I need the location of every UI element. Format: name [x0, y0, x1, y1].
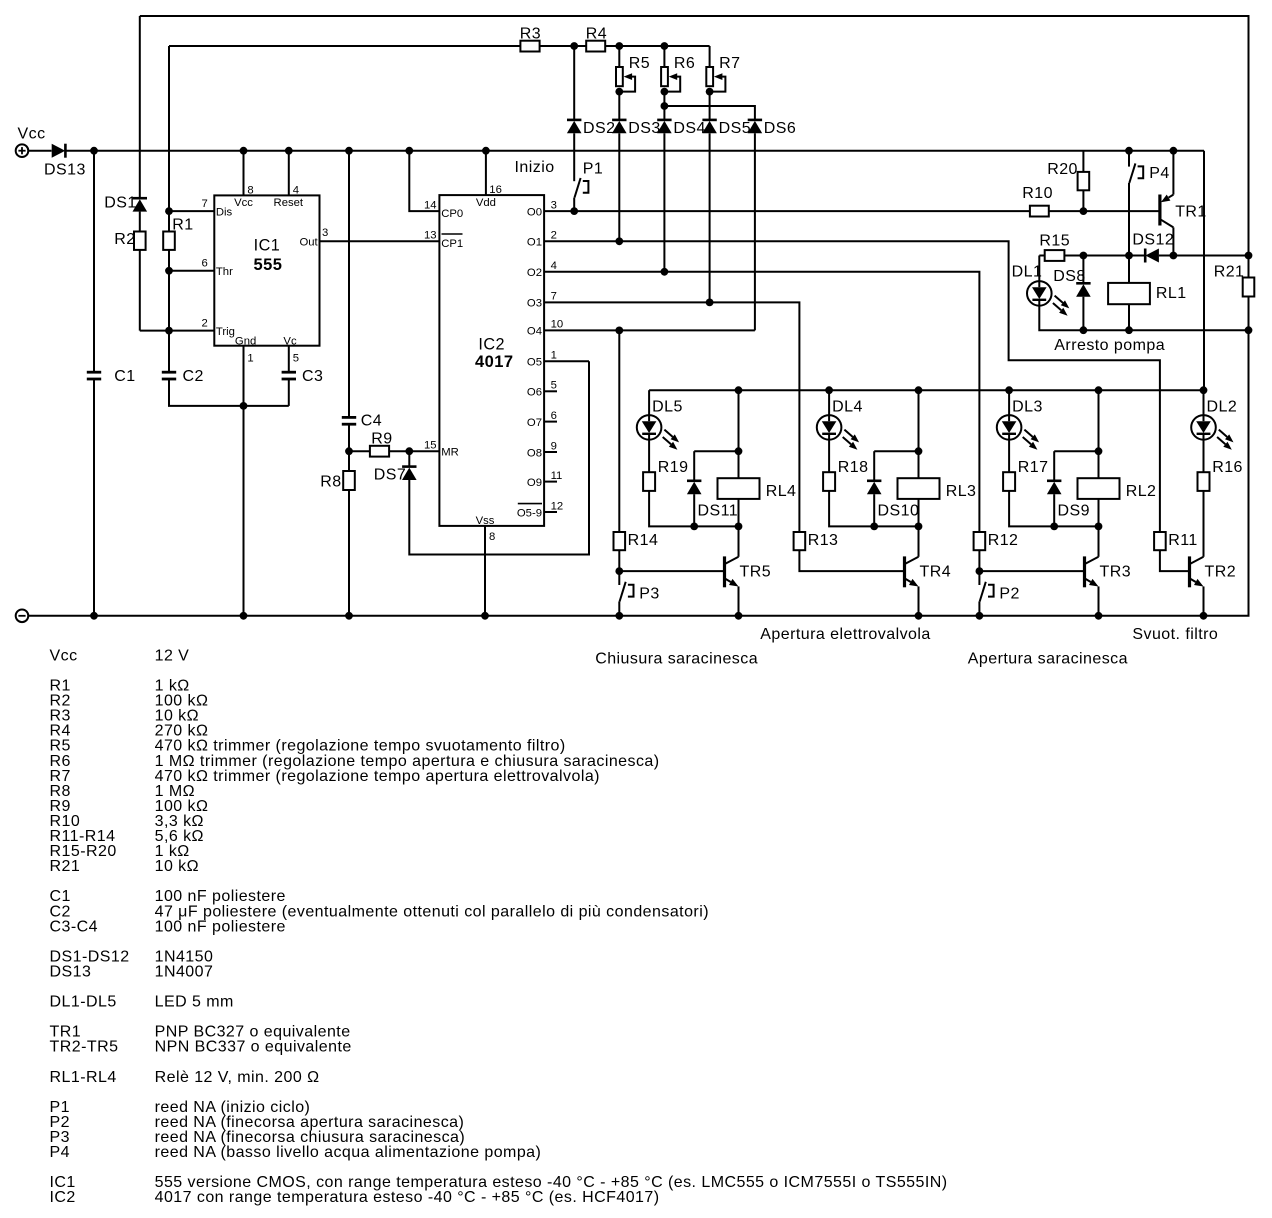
DS11 label [698, 503, 739, 520]
svg-text:R12: R12 [988, 532, 1019, 549]
svg-text:P4: P4 [1149, 165, 1169, 182]
reed switch P2 [980, 582, 994, 602]
junction DS4 O2 [661, 268, 669, 276]
R17 label [1018, 459, 1049, 476]
svg-text:reed NA (basso livello acqua a: reed NA (basso livello acqua alimentazio… [155, 1144, 542, 1161]
svg-text:3: 3 [551, 199, 557, 211]
junction TR1 collector DS12 [1170, 252, 1178, 260]
wire DS12 to TR1 [1159, 255, 1249, 257]
junction P3 base node [615, 567, 623, 575]
DS12 label [1132, 232, 1174, 249]
svg-text:C1: C1 [114, 368, 135, 385]
svg-text:TR2-TR5: TR2-TR5 [50, 1039, 119, 1056]
svg-text:R9: R9 [371, 431, 392, 448]
svg-text:R6: R6 [674, 55, 695, 72]
wire Thr row [169, 270, 214, 272]
svg-text:R14: R14 [628, 532, 659, 549]
wire R21 bottom [1248, 297, 1250, 616]
IC2 pin MR name [441, 447, 459, 459]
wire C4 top [348, 151, 350, 418]
diode DS10 [867, 481, 882, 494]
svg-text:9: 9 [551, 440, 557, 452]
Inizio label [515, 159, 555, 176]
DS5 label [719, 120, 751, 137]
junction Thr node [165, 267, 173, 275]
Vcc label [18, 126, 46, 143]
IC2 pin 6 number [551, 410, 557, 422]
wire DS11 anode [693, 451, 695, 481]
wire R14 to base node [618, 550, 620, 571]
IC1 pin 6 number [202, 258, 208, 270]
svg-text:O2: O2 [527, 267, 542, 279]
wire R17 bottom [1009, 491, 1098, 527]
wire R7 top [709, 46, 711, 67]
svg-text:1N4007: 1N4007 [155, 963, 214, 980]
junction IC2 Vdd branch [482, 147, 490, 155]
svg-text:1: 1 [247, 353, 253, 365]
wire relay RL2 top [1098, 390, 1100, 478]
junction R8 gnd [345, 612, 353, 620]
R5 label [629, 55, 650, 72]
wire DL3 to R17 [1008, 440, 1010, 473]
R6 label [674, 55, 695, 72]
IC2 pin 1 number [551, 350, 557, 362]
svg-text:RL3: RL3 [946, 483, 977, 500]
wire R13 to base row [799, 550, 904, 571]
svg-text:10 kΩ: 10 kΩ [155, 858, 199, 875]
C2 label [183, 368, 204, 385]
svg-text:R19: R19 [658, 459, 689, 476]
wire DS5 to O3 row [709, 133, 711, 302]
svg-text:13: 13 [424, 230, 437, 242]
junction P2 base node [976, 567, 984, 575]
R3 label [520, 26, 541, 43]
junction TR5 collector node [735, 523, 743, 531]
svg-text:8: 8 [247, 185, 253, 197]
R12 label [988, 532, 1019, 549]
svg-text:DL1: DL1 [1012, 264, 1043, 281]
wire R8 top [348, 451, 350, 471]
led DL2 [1191, 415, 1233, 450]
IC2 pin Vss name [476, 515, 495, 527]
wire C3 bottom [288, 379, 290, 406]
IC2 pin O6 name [527, 387, 542, 399]
trimmer R7 [706, 67, 725, 92]
diode DS6 [748, 120, 763, 133]
C3 label [302, 368, 323, 385]
svg-text:DS10: DS10 [878, 503, 920, 520]
wire R4 to R7 [605, 45, 709, 47]
wire DS1 to R2 [139, 212, 141, 232]
wire DS3 to O1 row [618, 133, 620, 241]
IC1 label [254, 236, 281, 254]
R14 label [628, 532, 659, 549]
wire DS9 anode [1053, 451, 1055, 481]
junction Dis node [165, 207, 173, 215]
capacitor C2 [162, 372, 176, 379]
svg-text:15: 15 [424, 439, 437, 451]
R10 label [1022, 185, 1053, 202]
svg-text:R7: R7 [719, 55, 740, 72]
svg-text:5: 5 [293, 353, 299, 365]
svg-text:555: 555 [254, 256, 283, 274]
wire DS10 to bottom [873, 494, 875, 526]
trimmer R5 [616, 67, 635, 92]
resistor R9 [370, 446, 389, 457]
wire R8 bottom [348, 490, 350, 616]
diode DS12 [1145, 249, 1159, 263]
svg-text:P4: P4 [50, 1144, 70, 1161]
P1 label [583, 161, 603, 178]
transistor TR4 NPN [905, 556, 919, 587]
wire P4 to RL1 [1128, 183, 1130, 283]
svg-text:RL4: RL4 [766, 483, 797, 500]
R7 label [719, 55, 740, 72]
capacitor C3 [282, 372, 296, 379]
TR1 label [1175, 204, 1207, 221]
wire Vcc rail [66, 150, 1204, 152]
svg-text:P2: P2 [999, 586, 1019, 603]
DS8 label [1053, 268, 1085, 285]
svg-text:DS3: DS3 [628, 120, 660, 137]
svg-text:DS7: DS7 [374, 467, 406, 484]
wire O8 stub [544, 451, 557, 453]
IC2 pin O0 name [527, 206, 542, 218]
svg-text:R21: R21 [50, 858, 81, 875]
svg-text:NPN BC337 o equivalente: NPN BC337 o equivalente [155, 1039, 352, 1056]
wire R1 top to R3 [169, 45, 520, 47]
IC2 pin 9 number [551, 440, 557, 452]
svg-text:2: 2 [202, 318, 208, 330]
diode DS5 [702, 120, 717, 133]
svg-text:R16: R16 [1212, 459, 1243, 476]
C1 label [114, 368, 135, 385]
junction CP0 branch [405, 147, 413, 155]
junction R5 top [615, 42, 623, 50]
svg-text:R8: R8 [320, 474, 341, 491]
R19 label [658, 459, 689, 476]
IC2 pin 12 number [551, 500, 564, 512]
wire RL1 bottom [1128, 304, 1130, 330]
svg-text:DS12: DS12 [1132, 232, 1174, 249]
DS13 label [44, 162, 86, 179]
svg-text:R17: R17 [1018, 459, 1049, 476]
IC1 pin 1 number [247, 353, 253, 365]
svg-text:R11: R11 [1168, 532, 1198, 549]
wire P2 bottom [978, 601, 980, 615]
IC2 pin CP0 name [441, 208, 463, 220]
junction MR DS7 [405, 447, 413, 455]
RL2 label [1126, 483, 1157, 500]
R1 label [172, 217, 193, 234]
junction RL1 bottom [1125, 326, 1133, 334]
capacitor C4 [342, 417, 356, 424]
reed switch P4 [1129, 163, 1143, 183]
svg-text:TR2: TR2 [1205, 564, 1237, 581]
wire base row TR5 [619, 570, 724, 572]
IC2 pin O5-9 name [517, 507, 542, 519]
wire DL1 bottom [1039, 306, 1248, 331]
IC2 pin 8 Vss wire [484, 526, 486, 616]
svg-text:Vcc: Vcc [50, 647, 78, 664]
relay RL3 [898, 478, 940, 499]
svg-text:R15: R15 [1039, 233, 1070, 250]
wire DS4 node to DS6 [664, 106, 755, 120]
wire P2 top [978, 571, 980, 585]
svg-text:C2: C2 [183, 368, 204, 385]
svg-text:DS4: DS4 [673, 120, 705, 137]
svg-text:Arresto pompa: Arresto pompa [1054, 337, 1165, 354]
svg-text:O3: O3 [527, 298, 542, 310]
wire DS2 to P1 [573, 133, 575, 181]
resistor R17 [1003, 472, 1015, 491]
Vcc + terminal [16, 144, 29, 157]
svg-text:O6: O6 [527, 387, 542, 399]
wire TR3 emitter [1098, 587, 1100, 616]
svg-text:Inizio: Inizio [515, 159, 555, 176]
svg-text:12 V: 12 V [155, 647, 190, 664]
junction DS2 branch [570, 42, 578, 50]
svg-text:Thr: Thr [216, 266, 233, 278]
junction TR3 emitter gnd [1095, 612, 1103, 620]
svg-text:IC1: IC1 [254, 236, 281, 254]
svg-text:Trig: Trig [216, 326, 235, 338]
wire DL5 to R19 [648, 440, 650, 473]
IC2 pin O4 name [527, 326, 542, 338]
wire TR4 emitter [918, 587, 920, 616]
TR3 label [1100, 564, 1132, 581]
junction relay branch [915, 386, 923, 394]
resistor R10 [1030, 206, 1049, 217]
wire R16 to TR2 collector [1203, 491, 1205, 557]
wire DL2 to R16 [1203, 440, 1205, 473]
junction P2 gnd [976, 612, 984, 620]
DS2 label [583, 120, 615, 137]
svg-text:DS2: DS2 [583, 120, 615, 137]
Chiusura saracinesca caption [595, 651, 758, 668]
svg-text:TR1: TR1 [1175, 204, 1207, 221]
svg-text:P3: P3 [639, 586, 659, 603]
DS6 label [764, 120, 796, 137]
IC2 pin 15 number [424, 439, 437, 451]
wire DS6 to O4 row [754, 133, 756, 330]
svg-text:4: 4 [551, 260, 557, 272]
svg-text:DL1-DL5: DL1-DL5 [50, 994, 117, 1011]
IC1 pin 1 Gnd wire [243, 346, 245, 406]
svg-text:DS1: DS1 [104, 195, 136, 212]
resistor R19 [643, 472, 655, 491]
wire DS8 top [1082, 256, 1084, 284]
wire DS11 to bottom [693, 494, 695, 526]
RL4 label [766, 483, 797, 500]
IC2 pin O2 name [527, 267, 542, 279]
wire TR1 collector down [1172, 227, 1174, 255]
wire C1 bottom [93, 379, 95, 616]
RL1 label [1156, 285, 1187, 302]
R8 label [320, 474, 341, 491]
svg-text:Apertura elettrovalvola: Apertura elettrovalvola [760, 626, 930, 643]
junction TR5 emitter gnd [735, 612, 743, 620]
svg-text:CP1: CP1 [441, 238, 463, 250]
wire node to R9 [349, 450, 370, 452]
wire DS10 top link [874, 450, 918, 452]
wire P3 bottom [618, 601, 620, 615]
TR4 label [920, 564, 952, 581]
junction R20 bottom [1080, 207, 1088, 215]
wire DS9 to bottom [1053, 494, 1055, 526]
junction DS3 O1 [615, 237, 623, 245]
wire R15 to DS12 [1064, 255, 1145, 257]
wire DS7 to O5 route [409, 361, 589, 554]
R16 label [1212, 459, 1243, 476]
IC1 pin Vcc name [234, 197, 253, 209]
junction R21 top [1245, 252, 1253, 260]
led DL5 [637, 415, 679, 450]
svg-text:C3: C3 [302, 368, 323, 385]
P3 label [639, 586, 659, 603]
junction R6 wiper node [661, 88, 669, 96]
svg-text:12: 12 [551, 500, 564, 512]
junction C1 branch [90, 147, 98, 155]
R4 label [586, 26, 607, 43]
transistor TR5 NPN [725, 556, 739, 587]
svg-text:R1: R1 [172, 217, 193, 234]
junction TR2 emitter gnd [1200, 612, 1208, 620]
IC2 pin O8 name [527, 447, 542, 459]
transistor TR1 PNP [1160, 195, 1174, 228]
R15 label [1039, 233, 1070, 250]
counter IC2 4017 box [439, 195, 544, 526]
reed switch P3 [620, 582, 634, 602]
DL3 label [1012, 399, 1043, 416]
junction R6 top [661, 42, 669, 50]
DL1 label [1012, 264, 1043, 281]
reed switch P1 [575, 178, 589, 198]
junction DS11 bottom [690, 523, 698, 531]
svg-text:P1: P1 [583, 161, 603, 178]
svg-text:IC2: IC2 [478, 336, 505, 354]
IC2 pin 16 number [489, 184, 502, 196]
resistor R3 [520, 41, 539, 52]
IC1 value 555 [254, 256, 283, 274]
svg-text:470 kΩ trimmer (regolazione te: 470 kΩ trimmer (regolazione tempo apertu… [155, 768, 600, 785]
wire R20 bottom [1082, 190, 1084, 211]
wire DL5 to rail [648, 390, 650, 415]
wire relay RL2 bottom [1098, 499, 1100, 527]
wire DS4 to O2 row [663, 133, 665, 271]
svg-text:R5: R5 [629, 55, 650, 72]
IC1 pin 7 number [202, 198, 208, 210]
svg-text:100 nF poliestere: 100 nF poliestere [155, 918, 286, 935]
svg-text:TR5: TR5 [740, 564, 772, 581]
svg-text:Reset: Reset [274, 197, 304, 209]
resistor R12 [974, 532, 986, 550]
IC1 pin 3 number [322, 227, 328, 239]
transistor TR3 NPN [1085, 556, 1099, 587]
diode DS8 [1076, 283, 1091, 296]
svg-text:IC2: IC2 [50, 1189, 76, 1206]
junction Trig node [165, 327, 173, 335]
svg-text:DS13: DS13 [44, 162, 86, 179]
R21 label [1214, 264, 1245, 281]
IC2 pin Vdd name [476, 197, 496, 209]
svg-text:DS6: DS6 [764, 120, 796, 137]
svg-text:Vss: Vss [476, 515, 495, 527]
relay RL4 [718, 478, 760, 499]
junction R7 wiper node [706, 88, 714, 96]
DS1 label [104, 195, 136, 212]
wire C4 to R9 node [348, 424, 350, 451]
svg-text:DS9: DS9 [1058, 503, 1090, 520]
junction DL2 branch [1200, 386, 1208, 394]
C4 label [361, 413, 382, 430]
wire top frame [140, 16, 1249, 256]
DL2 label [1207, 399, 1238, 416]
wire DL1 R15 corner [1039, 255, 1044, 257]
wire O0 row [544, 210, 1030, 212]
wire O9 stub [544, 481, 557, 483]
svg-text:10: 10 [551, 319, 564, 331]
wire R19 bottom [649, 491, 738, 527]
wire P4 top [1128, 151, 1130, 167]
svg-text:Chiusura saracinesca: Chiusura saracinesca [595, 651, 758, 668]
junction TR4 collector node [915, 523, 923, 531]
wire TR5 emitter [738, 587, 740, 616]
junction P1 O0 [570, 207, 578, 215]
wire relay RL3 top [918, 390, 920, 478]
svg-text:R21: R21 [1214, 264, 1245, 281]
svg-text:DS11: DS11 [698, 503, 739, 520]
IC1 pin Gnd name [235, 335, 256, 347]
led DL3 [997, 415, 1039, 450]
junction relay RL4 top tap [735, 447, 743, 455]
op IC1 555 box [214, 195, 319, 345]
IC2 pin 2 number [551, 230, 557, 242]
RL3 label [946, 483, 977, 500]
wire R11 to TR2 base [1160, 550, 1190, 571]
svg-text:4017 con range temperatura est: 4017 con range temperatura esteso -40 °C… [155, 1189, 660, 1206]
IC2 pin 16 Vdd wire [485, 151, 487, 195]
DL4 label [832, 399, 863, 416]
IC1 pin 4 Reset wire [288, 151, 290, 196]
svg-text:Vcc: Vcc [18, 126, 46, 143]
svg-text:7: 7 [551, 291, 557, 303]
R2 label [114, 231, 135, 248]
wire DS8 bottom [1082, 297, 1084, 331]
svg-text:8: 8 [489, 531, 495, 543]
parts list [50, 647, 948, 1206]
wire R1 bottom [168, 250, 170, 372]
junction R14 branch [615, 327, 623, 335]
wire relay RL4 bottom [738, 499, 740, 527]
wire blocks top rail [649, 389, 1204, 391]
svg-text:C4: C4 [361, 413, 382, 430]
junction IC1 pin8 branch [240, 147, 248, 155]
svg-text:4: 4 [293, 185, 299, 197]
svg-text:DL2: DL2 [1207, 399, 1238, 416]
junction relay branch [1095, 386, 1103, 394]
led DL4 [817, 415, 859, 450]
ground - terminal [16, 610, 29, 623]
junction Vss gnd [481, 612, 489, 620]
svg-text:Relè 12 V, min. 200 Ω: Relè 12 V, min. 200 Ω [155, 1069, 320, 1086]
svg-text:CP0: CP0 [441, 208, 463, 220]
resistor R15 [1045, 250, 1065, 261]
wire base row TR3 [979, 570, 1084, 572]
IC1 pin 5 Vc wire [288, 346, 290, 372]
resistor R18 [823, 472, 835, 491]
wire O4 row [544, 329, 755, 331]
